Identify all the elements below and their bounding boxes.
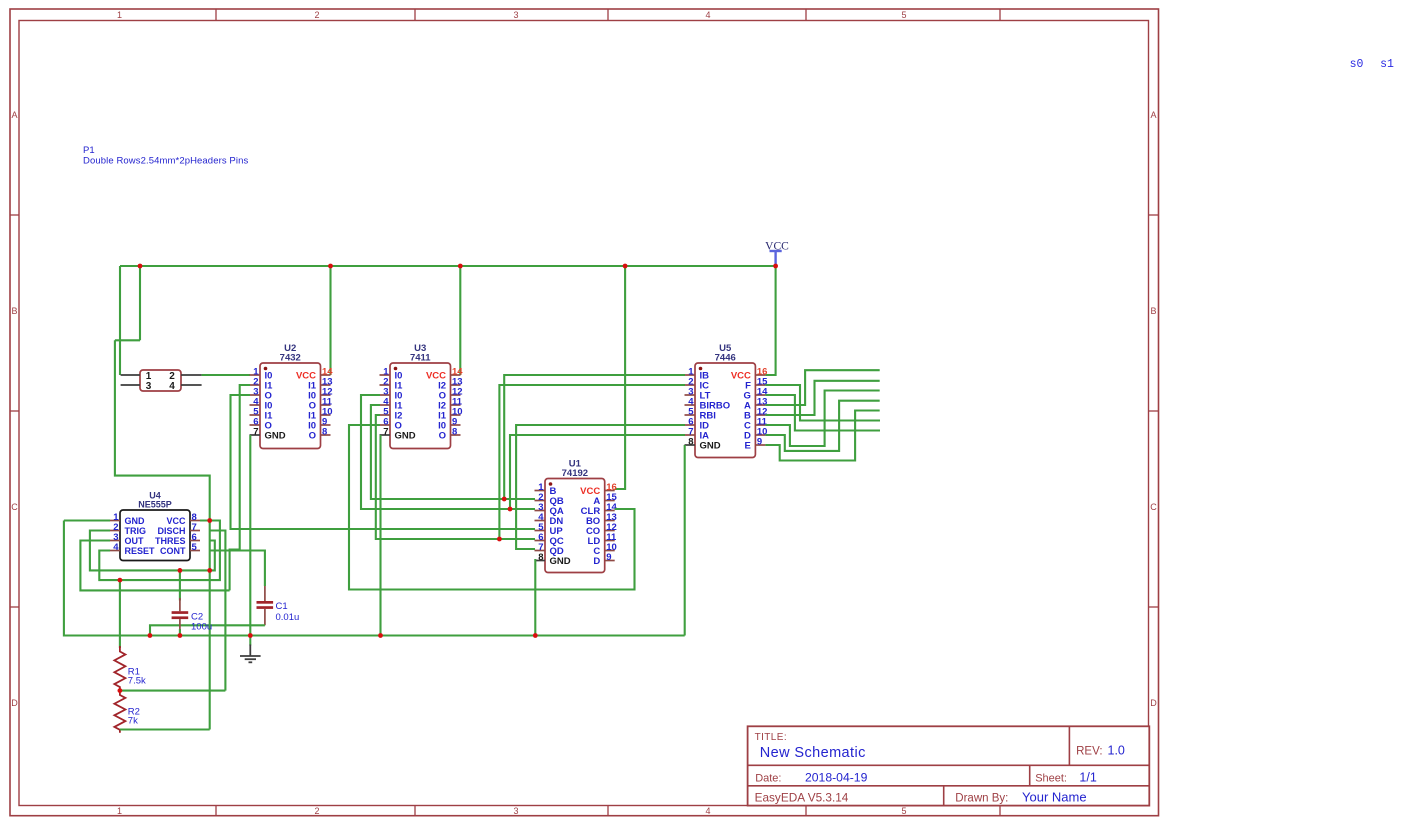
svg-text:2018-04-19: 2018-04-19 xyxy=(805,770,868,784)
svg-text:1/1: 1/1 xyxy=(1079,770,1096,784)
svg-text:4: 4 xyxy=(169,381,175,392)
svg-text:74192: 74192 xyxy=(562,468,588,479)
svg-text:5: 5 xyxy=(901,10,906,20)
svg-text:7: 7 xyxy=(253,426,258,437)
border frame inner xyxy=(19,21,1149,806)
connector P1 xyxy=(121,370,202,392)
svg-text:D: D xyxy=(593,556,600,567)
svg-text:1: 1 xyxy=(117,806,122,816)
border frame outer xyxy=(10,9,1159,816)
wire VCC feed down-left xyxy=(115,340,210,520)
svg-text:CONT: CONT xyxy=(160,546,186,556)
wire U4 OUT loop xyxy=(80,541,229,591)
svg-text:THRES: THRES xyxy=(155,536,186,546)
svg-text:Your Name: Your Name xyxy=(1022,790,1087,805)
wire C2 bottom to rail xyxy=(179,629,181,636)
wire U2 GND to ground rail xyxy=(249,435,251,636)
svg-text:s1: s1 xyxy=(1380,58,1394,71)
svg-text:7432: 7432 xyxy=(280,353,301,364)
wire U3 pin5 to U1 QC xyxy=(376,415,535,539)
svg-text:3: 3 xyxy=(146,381,152,392)
wire U4 DISCH down xyxy=(210,531,225,691)
svg-text:8: 8 xyxy=(452,426,457,437)
svg-text:NE555P: NE555P xyxy=(138,499,172,509)
svg-text:E: E xyxy=(745,441,751,452)
svg-text:0.01u: 0.01u xyxy=(276,612,300,623)
svg-text:C: C xyxy=(1150,502,1157,512)
wire VCC top rail xyxy=(120,265,776,267)
svg-text:1.0: 1.0 xyxy=(1108,744,1125,758)
ground symbol xyxy=(240,636,261,663)
svg-text:A: A xyxy=(11,110,17,120)
wire U5 gnd drop xyxy=(684,445,686,636)
wire U5 B out xyxy=(765,381,879,415)
svg-text:GND: GND xyxy=(550,556,571,567)
svg-text:Drawn By:: Drawn By: xyxy=(955,793,1008,805)
svg-text:8: 8 xyxy=(688,436,693,447)
svg-text:7.5k: 7.5k xyxy=(128,676,146,687)
svg-text:OUT: OUT xyxy=(125,536,145,546)
wire U5 D out xyxy=(765,401,879,451)
svg-text:3: 3 xyxy=(513,10,518,20)
wire U4 CONT to C1 xyxy=(210,551,265,587)
wire U4 TRIG loop xyxy=(90,531,215,571)
svg-text:D: D xyxy=(11,698,18,708)
resistor R1 xyxy=(114,646,125,691)
wire VCC vertical to R2 bottom xyxy=(209,521,211,730)
wire VCC drop to U1 pin16 xyxy=(615,266,625,489)
wire U5 A out xyxy=(765,370,879,405)
wire U5 F out xyxy=(765,385,880,421)
wire ground rail xyxy=(64,521,685,636)
wire U4 RESET to VCC loop xyxy=(99,521,220,581)
ruler letters right xyxy=(1150,110,1157,708)
resistor R2 xyxy=(114,691,125,733)
svg-text:C1: C1 xyxy=(276,601,288,612)
svg-text:5: 5 xyxy=(192,542,198,553)
capacitor C2 xyxy=(172,598,189,631)
svg-text:7411: 7411 xyxy=(410,353,431,364)
wire U5 IC to U1 QC xyxy=(499,385,685,539)
wire U3 pin6 to U1 CLR xyxy=(349,425,635,590)
wire U5 IA to U1 QA xyxy=(510,435,685,509)
svg-text:2: 2 xyxy=(314,806,319,816)
svg-text:RESET: RESET xyxy=(125,546,156,556)
svg-text:GND: GND xyxy=(395,431,416,442)
svg-text:REV:: REV: xyxy=(1076,746,1102,758)
svg-text:Sheet:: Sheet: xyxy=(1035,772,1067,784)
wire loop bottom join xyxy=(115,339,140,341)
svg-text:GND: GND xyxy=(700,441,721,452)
wire rail drop at 140 xyxy=(139,266,141,340)
wire U5 IB to U1 QB xyxy=(504,375,685,499)
svg-text:C: C xyxy=(11,502,18,512)
svg-text:8: 8 xyxy=(322,426,327,437)
svg-text:Date:: Date: xyxy=(755,772,781,784)
svg-text:7k: 7k xyxy=(128,716,138,727)
wire VCC drop to U2 pin14 xyxy=(329,266,331,375)
svg-text:7446: 7446 xyxy=(715,353,736,364)
svg-text:3: 3 xyxy=(513,806,518,816)
svg-text:GND: GND xyxy=(265,431,286,442)
svg-text:O: O xyxy=(309,431,316,442)
power flag VCC xyxy=(770,251,782,266)
svg-text:DISCH: DISCH xyxy=(157,526,185,536)
node junction dots xyxy=(118,264,779,693)
svg-text:A: A xyxy=(1150,110,1156,120)
svg-text:O: O xyxy=(439,431,446,442)
wire VCC drop to U3 pin14 xyxy=(459,266,461,375)
svg-text:GND: GND xyxy=(125,516,146,526)
ruler ticks top xyxy=(216,9,1000,816)
svg-text:2: 2 xyxy=(314,10,319,20)
svg-text:9: 9 xyxy=(606,552,611,563)
wire U5 G out xyxy=(765,395,880,431)
ruler numbers bottom xyxy=(117,806,907,816)
wire rail left drop to P1 pin1 xyxy=(119,266,121,375)
svg-text:8: 8 xyxy=(538,552,543,563)
capacitor C1 xyxy=(257,586,274,625)
wire U5 C out xyxy=(765,391,879,447)
svg-text:TRIG: TRIG xyxy=(125,526,147,536)
svg-text:New Schematic: New Schematic xyxy=(760,745,866,761)
wire U3 pin3 to U1 QA xyxy=(361,395,535,509)
svg-text:B: B xyxy=(11,306,17,316)
ruler ticks sides xyxy=(10,215,1159,607)
svg-text:VCC: VCC xyxy=(166,516,186,526)
svg-text:Double Rows2.54mm*2pHeaders P: Double Rows2.54mm*2pHeaders Pins xyxy=(83,156,248,167)
svg-text:9: 9 xyxy=(757,436,762,447)
wire P1 pin2 to U2 pin1 xyxy=(202,374,250,376)
wire U5 ID to U1 QD xyxy=(516,425,685,549)
wire C1 bottom to rail xyxy=(150,625,265,635)
svg-text:5: 5 xyxy=(901,806,906,816)
ruler numbers top xyxy=(117,10,907,20)
wire R1-R2 junction to DISCH xyxy=(120,690,225,692)
wire U5 E out xyxy=(765,411,879,461)
svg-text:4: 4 xyxy=(113,542,119,553)
svg-text:B: B xyxy=(1150,306,1156,316)
timer U4 NE555P xyxy=(110,490,200,560)
svg-text:4: 4 xyxy=(705,10,710,20)
wire U2 pin3 to U1 UP xyxy=(231,395,536,529)
wire U1 gnd drop xyxy=(534,559,536,636)
title block xyxy=(748,726,1150,805)
svg-text:1: 1 xyxy=(117,10,122,20)
wire R2 bottom xyxy=(120,728,210,730)
svg-text:4: 4 xyxy=(705,806,710,816)
wire VCC drop to U5 pin16 xyxy=(765,266,775,375)
svg-text:7: 7 xyxy=(383,426,388,437)
svg-text:VCC: VCC xyxy=(765,240,789,252)
svg-text:EasyEDA V5.3.14: EasyEDA V5.3.14 xyxy=(755,791,849,805)
wire R1 top xyxy=(119,580,121,648)
svg-text:TITLE:: TITLE: xyxy=(755,732,787,743)
wire U2 pin2 from 555 OUT xyxy=(230,385,250,590)
wire C2 top xyxy=(179,570,181,600)
wire U3 gnd drop xyxy=(379,435,381,636)
wire U4 pin1 gnd xyxy=(64,519,110,521)
wire U3 pin4 to U1 QB xyxy=(371,405,535,499)
svg-text:P1: P1 xyxy=(83,145,95,156)
svg-text:100u: 100u xyxy=(191,622,212,633)
svg-text:s0: s0 xyxy=(1350,58,1364,71)
ruler letters left xyxy=(11,110,18,708)
svg-text:D: D xyxy=(1150,698,1157,708)
